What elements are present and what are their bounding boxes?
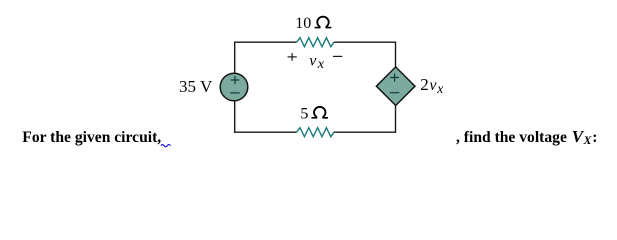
resistor R1 zigzag (10 ohm) (297, 38, 335, 47)
wire bottom-right segment (334, 131, 396, 133)
dependent source plus sign (390, 74, 399, 82)
svg-text:vx: vx (309, 53, 324, 73)
svg-text:5: 5 (300, 105, 308, 122)
resistor R2 zigzag (5 ohm) (297, 128, 335, 137)
wire right vertical lower (395, 105, 397, 133)
voltage source V1 minus sign (230, 92, 239, 94)
svg-text:For the given circuit,: For the given circuit, (22, 129, 161, 146)
svg-text:35 V: 35 V (179, 77, 213, 96)
blue grammar squiggle (161, 145, 171, 147)
wire right vertical upper (395, 42, 397, 69)
svg-text:10: 10 (295, 15, 311, 32)
wire left vertical lower (234, 100, 236, 133)
wire left vertical upper (234, 42, 236, 75)
svg-text:, find the voltage VX:: , find the voltage VX: (456, 127, 597, 147)
dependent source U1 diamond (376, 67, 415, 106)
polarity plus of vx across R1 (288, 53, 297, 61)
dependent source minus sign (390, 92, 399, 94)
voltage source V1 circle (220, 73, 248, 101)
polarity minus of vx across R1 (333, 55, 342, 57)
voltage source V1 plus sign (231, 76, 240, 84)
svg-text:2vx: 2vx (420, 75, 443, 96)
wire top-left segment (235, 41, 297, 43)
wire bottom-left segment (235, 131, 297, 133)
wire top-right segment (334, 41, 396, 43)
